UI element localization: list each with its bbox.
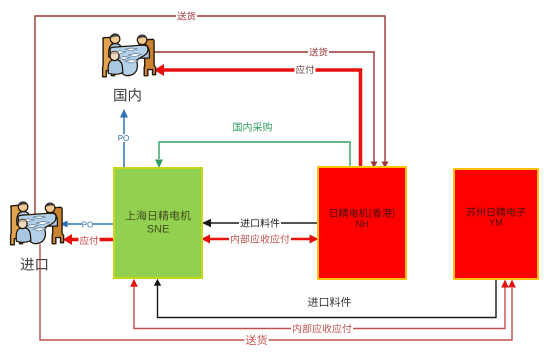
svg-text:SNE: SNE xyxy=(147,223,170,235)
svg-text:YM: YM xyxy=(489,218,503,228)
svg-text:NH: NH xyxy=(356,219,369,229)
svg-text:PO: PO xyxy=(118,134,130,143)
svg-text:PO: PO xyxy=(82,220,94,229)
